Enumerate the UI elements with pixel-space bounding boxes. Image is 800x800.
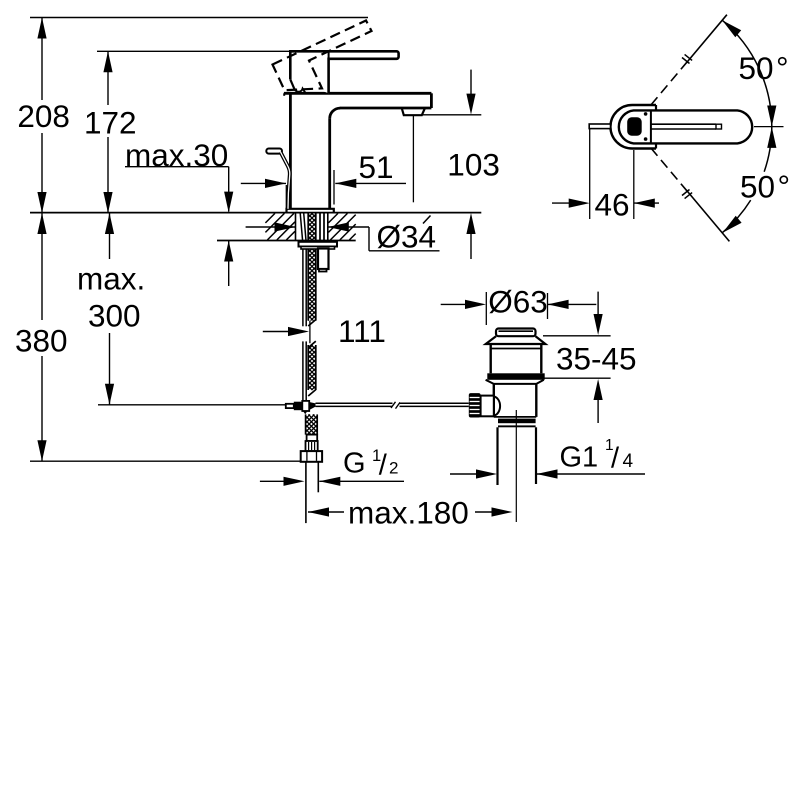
svg-text:103: 103 (447, 147, 500, 183)
svg-text:111: 111 (338, 313, 386, 349)
svg-text:/: / (379, 450, 388, 482)
svg-text:4: 4 (623, 451, 634, 472)
svg-text:G: G (343, 448, 366, 480)
svg-text:°: ° (778, 169, 791, 205)
svg-text:max.: max. (77, 261, 145, 297)
svg-text:50: 50 (740, 169, 775, 205)
svg-text:°: ° (776, 50, 789, 86)
svg-text:G1: G1 (560, 441, 599, 473)
svg-text:Ø34: Ø34 (377, 219, 437, 255)
svg-text:35-45: 35-45 (556, 341, 637, 377)
svg-text:max.180: max.180 (348, 495, 469, 531)
svg-text:172: 172 (84, 105, 137, 141)
svg-text:/: / (611, 442, 620, 474)
svg-text:208: 208 (17, 98, 70, 134)
svg-text:300: 300 (88, 298, 141, 334)
svg-text:46: 46 (595, 187, 630, 223)
svg-text:50: 50 (739, 50, 774, 86)
svg-text:380: 380 (15, 323, 68, 359)
svg-text:max.30: max.30 (125, 137, 228, 173)
svg-text:2: 2 (389, 459, 398, 478)
svg-text:51: 51 (359, 149, 394, 185)
svg-text:Ø63: Ø63 (488, 284, 548, 320)
